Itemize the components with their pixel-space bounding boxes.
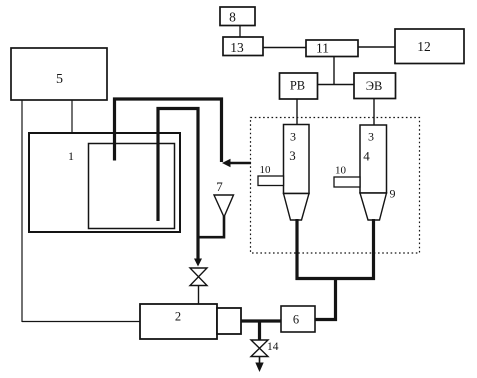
svg-text:5: 5 bbox=[56, 72, 63, 87]
svg-text:11: 11 bbox=[316, 41, 329, 56]
block 13 bbox=[223, 37, 263, 56]
wire PB down to cyclone 3 bbox=[296, 99, 298, 125]
pipe from funnel 7 into pipe B bbox=[198, 216, 225, 237]
pipe nozzle to block 6 bbox=[241, 319, 281, 322]
svg-text:2: 2 bbox=[175, 310, 181, 324]
wire 8 to 13 bbox=[239, 26, 241, 38]
inlet pipe 10 (right) bbox=[334, 165, 360, 188]
wire 11 to 12 bbox=[358, 46, 395, 48]
block 6 bbox=[281, 306, 315, 332]
arrow down into valve bbox=[194, 259, 202, 267]
tank 1 inner vessel bbox=[89, 144, 175, 229]
pipe A: tube from tank over to arrow elbow bbox=[115, 99, 222, 162]
svg-text:6: 6 bbox=[293, 313, 299, 327]
pipe arrow from dashed box, pointing left bbox=[222, 159, 251, 167]
valve 14 bbox=[251, 340, 279, 357]
valve (hourglass above block 2) bbox=[190, 268, 207, 286]
pipe B: tube from tank to valve drop bbox=[158, 109, 198, 260]
cyclone 4 (right) body bbox=[360, 125, 387, 220]
block EB bbox=[354, 73, 396, 99]
wire bottom horizontal to block 2 bbox=[22, 321, 140, 323]
block 2 bbox=[140, 304, 217, 339]
svg-text:12: 12 bbox=[417, 39, 431, 54]
svg-text:9: 9 bbox=[390, 187, 396, 201]
svg-text:10: 10 bbox=[335, 165, 347, 177]
pipe tee down to valve 14 bbox=[258, 321, 261, 340]
block 11 bbox=[306, 40, 358, 57]
pipe cyclone 3 discharge bbox=[295, 219, 298, 280]
wire block5 left down to bottom line bbox=[21, 100, 23, 322]
pipe joining discharges bbox=[296, 277, 376, 280]
tank 1 outer shell bbox=[29, 133, 180, 232]
wire 11 down to PB-EB line bbox=[333, 57, 335, 85]
svg-text:10: 10 bbox=[260, 164, 272, 176]
cyclone 3 (left) body bbox=[284, 125, 310, 221]
wire block5 right down to tank 1 bbox=[71, 100, 73, 133]
svg-text:13: 13 bbox=[230, 40, 244, 55]
drain arrow below valve 14 bbox=[255, 357, 263, 373]
inlet pipe 10 (left) bbox=[258, 164, 284, 186]
wire 13 to 11 bbox=[263, 47, 306, 49]
wire PB to EB bbox=[318, 84, 355, 86]
svg-text:РВ: РВ bbox=[290, 79, 305, 93]
svg-text:7: 7 bbox=[216, 179, 223, 194]
svg-text:ЭВ: ЭВ bbox=[366, 79, 383, 93]
svg-text:8: 8 bbox=[229, 10, 236, 25]
svg-text:3: 3 bbox=[290, 130, 296, 144]
block 8 bbox=[220, 7, 255, 26]
pipe cyclone 4 discharge bbox=[372, 219, 375, 280]
svg-text:14: 14 bbox=[267, 341, 279, 353]
dashed enclosure bbox=[251, 118, 420, 254]
svg-text:3: 3 bbox=[368, 130, 374, 144]
block 12 bbox=[395, 29, 464, 64]
svg-text:1: 1 bbox=[68, 149, 74, 163]
block 2 outlet nozzle bbox=[217, 308, 241, 334]
wire valve to block 2 bbox=[198, 286, 200, 305]
svg-text:3: 3 bbox=[289, 148, 296, 163]
pipe down to block 6 bbox=[315, 279, 336, 320]
block PB bbox=[280, 73, 318, 99]
funnel 7 bbox=[214, 179, 234, 217]
svg-text:4: 4 bbox=[363, 149, 370, 164]
block 5 bbox=[11, 48, 107, 100]
wire EB down to cyclone 4 bbox=[373, 99, 375, 126]
